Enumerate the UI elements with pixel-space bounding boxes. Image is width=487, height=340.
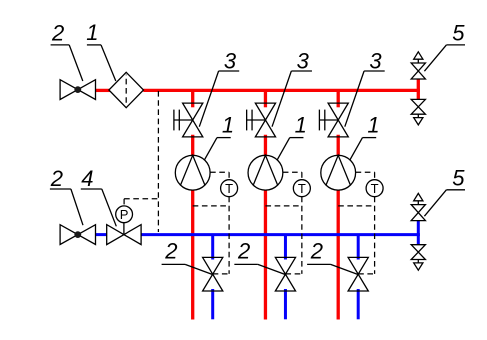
wire: return header main (blue) xyxy=(141,233,420,236)
wire: return riser branch 2 upper stub (blue) xyxy=(284,236,287,260)
svg-text:2: 2 xyxy=(237,239,250,264)
wire: return riser branch 3 lower (blue) xyxy=(357,289,360,319)
wire: supply header main (red) xyxy=(143,89,420,92)
air vent 5 top triangle (supply) xyxy=(414,52,423,59)
wire: supply riser branch 2 below valve (red) xyxy=(264,135,267,320)
svg-text:5: 5 xyxy=(452,165,465,190)
control valve 2 (branch 1 return) xyxy=(203,257,223,291)
drain valve lower bowtie (return) xyxy=(411,245,425,260)
wire: return vent stub right (blue) xyxy=(417,221,420,245)
pump 1 (branch 2) xyxy=(248,155,283,190)
wire: control link to valve 3 (dashed) xyxy=(358,273,374,275)
vent valve upper bowtie (return) xyxy=(411,205,425,221)
wire: supply vent stub right (red) xyxy=(417,79,420,99)
label 2 return valve branch 3: leader xyxy=(307,239,359,275)
wire: sensor T2 down to control valve (dashed) xyxy=(301,197,303,274)
svg-text:3: 3 xyxy=(224,48,237,73)
ball valve 2 (supply inlet), with ball xyxy=(60,80,95,100)
svg-text:2: 2 xyxy=(164,239,177,264)
wire: return riser branch 1 upper stub (blue) xyxy=(211,236,214,260)
svg-text:5: 5 xyxy=(452,20,465,45)
svg-text:4: 4 xyxy=(81,166,93,191)
svg-text:T: T xyxy=(225,181,233,196)
label 1 filter: leader xyxy=(86,20,116,81)
wire: supply riser branch 3 top stub (red) xyxy=(337,92,340,107)
wire: impulse line from supply header down to controller (dashed) xyxy=(157,91,159,232)
wire: pump 1 to sensor T1 (dashed) xyxy=(210,171,229,173)
svg-text:2: 2 xyxy=(310,239,323,264)
wire: sensor tap on supply riser 2 (dashed) xyxy=(265,205,301,207)
wire: impulse line drop to P bubble (dashed) xyxy=(123,199,125,206)
svg-text:1: 1 xyxy=(367,113,379,138)
label 1 pump branch 2: leader xyxy=(277,113,307,161)
control valve 2 (branch 3 return) xyxy=(348,257,368,291)
wire: control link to valve 2 (dashed) xyxy=(285,273,301,275)
svg-text:1: 1 xyxy=(295,113,307,138)
wire: supply riser branch 3 below valve (red) xyxy=(337,135,340,320)
wire: supply riser branch 2 top stub (red) xyxy=(264,92,267,107)
wire: supply riser branch 1 top stub (red) xyxy=(191,92,194,107)
label 2 outlet ball valve: leader xyxy=(50,166,83,225)
svg-text:1: 1 xyxy=(86,20,98,45)
pressure control valve 4 with actuator stem xyxy=(107,223,141,245)
control valve 2 (branch 2 return) xyxy=(275,257,295,291)
vent valve upper bowtie (supply) xyxy=(411,63,425,79)
svg-text:T: T xyxy=(371,181,379,196)
label 2 inlet ball valve: leader xyxy=(51,20,83,81)
svg-text:P: P xyxy=(120,207,129,222)
wire: pump 3 to sensor T3 (dashed) xyxy=(356,171,375,173)
label 2 return valve branch 2: leader xyxy=(234,239,286,275)
air vent 5 top triangle (return) xyxy=(414,193,423,200)
svg-text:T: T xyxy=(298,181,306,196)
label 3 balancing valve branch 3: leader xyxy=(345,48,385,126)
label 3 balancing valve branch 2: leader xyxy=(272,48,312,126)
label 2 return valve branch 1: leader xyxy=(162,239,214,275)
wire: supply header segment valve-to-filter (red) xyxy=(95,89,110,92)
wire: sensor T1 down to control valve (dashed) xyxy=(228,197,230,274)
label 4 pressure control valve: leader xyxy=(81,166,117,226)
label 1 pump branch 3: leader xyxy=(350,113,380,161)
wire: pump 2 to sensor T2 (dashed) xyxy=(283,171,302,173)
drain triangle (return) xyxy=(414,263,423,270)
drain triangle (supply) xyxy=(414,118,423,125)
drain valve lower bowtie (supply) xyxy=(411,99,425,114)
wire: sensor tap on supply riser 1 (dashed) xyxy=(193,205,229,207)
instrument bubble T (temperature sensor, branch 1) xyxy=(221,180,238,197)
svg-text:2: 2 xyxy=(51,20,64,45)
label 5 supply vent: leader xyxy=(424,20,465,71)
ball valve 2 (return outlet), with ball xyxy=(60,225,95,245)
wire: sensor tap on supply riser 3 (dashed) xyxy=(338,205,374,207)
balancing valve 3 (branch 2) xyxy=(247,103,276,137)
wire: impulse line horizontal to P controller (dashed) xyxy=(124,198,158,200)
pump 1 (branch 1) xyxy=(175,155,210,190)
wire: supply riser branch 1 below valve (red) xyxy=(191,135,194,320)
wire: control link to valve 1 (dashed) xyxy=(213,273,229,275)
label 1 pump branch 1: leader xyxy=(204,113,234,161)
wire: return header segment valve-to-valve (blue) xyxy=(96,233,107,236)
pump 1 (branch 3) xyxy=(321,155,356,190)
wire: return riser branch 2 lower (blue) xyxy=(284,289,287,319)
filter/strainer 1 (diamond) xyxy=(109,72,144,107)
wire: return riser branch 1 lower (blue) xyxy=(211,289,214,319)
svg-text:1: 1 xyxy=(222,113,234,138)
wire: sensor T3 down to control valve (dashed) xyxy=(374,197,376,274)
wire: return riser branch 3 upper stub (blue) xyxy=(357,236,360,260)
instrument bubble T (temperature sensor, branch 2) xyxy=(293,180,310,197)
svg-text:3: 3 xyxy=(369,48,382,73)
instrument bubble P (pressure controller) xyxy=(116,206,133,223)
svg-text:2: 2 xyxy=(50,166,63,191)
instrument bubble T (temperature sensor, branch 3) xyxy=(366,180,383,197)
svg-text:3: 3 xyxy=(297,48,310,73)
balancing valve 3 (branch 1) xyxy=(174,103,203,137)
balancing valve 3 (branch 3) xyxy=(319,103,348,137)
label 3 balancing valve branch 1: leader xyxy=(199,48,239,126)
label 5 return vent: leader xyxy=(424,165,465,216)
